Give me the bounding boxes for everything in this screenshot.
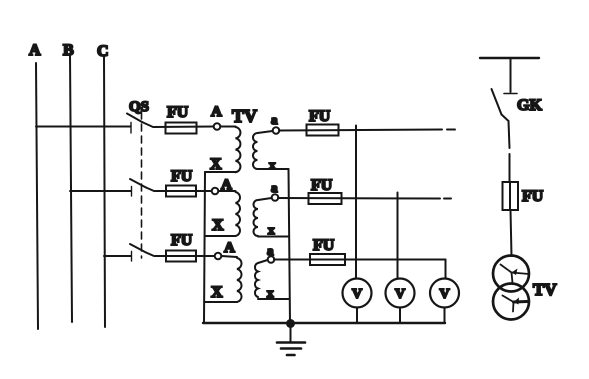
ground bbox=[277, 326, 305, 355]
fuse FU1 bbox=[154, 104, 214, 134]
wire drop to voltmeter PV1 bbox=[355, 126, 357, 279]
svg-text:X: X bbox=[212, 217, 224, 234]
svg-text:X: X bbox=[211, 284, 223, 301]
right fuse FU bbox=[503, 182, 544, 210]
svg-text:GK: GK bbox=[517, 97, 542, 114]
fuse FU5 secondary row 2 bbox=[278, 177, 451, 204]
primary neutral wire X common bbox=[204, 172, 205, 323]
transformer TV1 primary winding bbox=[205, 104, 240, 173]
svg-text:QS: QS bbox=[129, 99, 149, 115]
junction dot bbox=[286, 319, 295, 328]
wire row 1 tap from bus A bbox=[36, 126, 131, 128]
svg-text:FU: FU bbox=[167, 104, 189, 121]
svg-text:V: V bbox=[395, 287, 405, 302]
svg-text:FU: FU bbox=[309, 108, 331, 125]
svg-text:B: B bbox=[63, 42, 74, 59]
svg-text:A: A bbox=[29, 42, 41, 59]
svg-text:V: V bbox=[352, 287, 362, 302]
fuse FU2 bbox=[155, 168, 212, 197]
transformer TV2 primary winding bbox=[205, 177, 240, 236]
svg-text:x: x bbox=[267, 285, 274, 300]
transformer TV3 primary winding bbox=[205, 240, 242, 302]
switch GK bbox=[492, 58, 543, 182]
svg-text:V: V bbox=[440, 287, 450, 302]
fuse FU3 bbox=[155, 232, 215, 262]
svg-text:TV: TV bbox=[533, 280, 557, 299]
svg-text:FU: FU bbox=[171, 232, 193, 249]
svg-text:A: A bbox=[221, 177, 232, 193]
svg-text:A: A bbox=[224, 240, 235, 256]
disconnector QS bbox=[127, 99, 154, 261]
svg-text:A: A bbox=[211, 104, 222, 120]
svg-text:FU: FU bbox=[313, 237, 335, 254]
svg-text:a: a bbox=[271, 112, 278, 127]
wire drop to voltmeter PV3 bbox=[445, 260, 447, 279]
voltmeter PV2 bbox=[386, 279, 415, 324]
transformer TV2 secondary winding bbox=[254, 180, 289, 237]
wire drop to voltmeter PV2 bbox=[397, 193, 399, 279]
svg-text:TV: TV bbox=[232, 106, 257, 126]
bus A bbox=[29, 42, 41, 329]
bottom bus wire bbox=[203, 322, 445, 324]
svg-text:C: C bbox=[97, 43, 109, 60]
fuse FU6 secondary row 3 bbox=[274, 237, 446, 265]
fuse FU4 secondary row 1 bbox=[279, 108, 455, 136]
transformer TV1 secondary winding bbox=[253, 112, 289, 172]
svg-text:a: a bbox=[271, 180, 278, 195]
voltmeter PV1 bbox=[343, 279, 372, 324]
transformer TV3 secondary winding bbox=[255, 243, 289, 300]
svg-text:x: x bbox=[268, 222, 275, 237]
bus C bbox=[97, 43, 109, 327]
svg-text:FU: FU bbox=[311, 177, 333, 194]
right busbar bbox=[480, 57, 539, 59]
svg-text:FU: FU bbox=[522, 188, 544, 205]
wire row 2 tap from bus B bbox=[70, 190, 131, 192]
bus B bbox=[63, 42, 74, 322]
svg-text:FU: FU bbox=[171, 168, 193, 185]
secondary neutral wire x common bbox=[289, 169, 291, 323]
svg-text:x: x bbox=[269, 157, 276, 172]
svg-text:a: a bbox=[267, 243, 274, 258]
right transformer TV bbox=[493, 256, 557, 320]
svg-text:X: X bbox=[210, 156, 222, 173]
wire fuse to TV bbox=[511, 210, 512, 256]
voltmeter PV3 bbox=[430, 279, 459, 324]
wire row 3 tap from bus C bbox=[104, 255, 131, 257]
